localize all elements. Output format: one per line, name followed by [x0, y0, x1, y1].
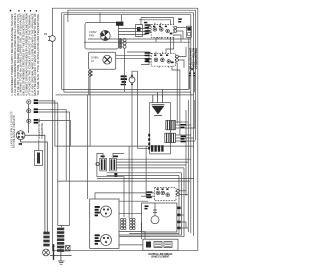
- oven light L1 box: [89, 52, 116, 69]
- connector stacks right of motor box: [121, 218, 136, 229]
- electronic control board U1: [150, 103, 171, 154]
- connector stack below box2: [88, 70, 92, 76]
- wires bottom center: [62, 193, 155, 245]
- svg-text:BAKE ELEMENT: BAKE ELEMENT: [151, 255, 170, 258]
- svg-text:P9: P9: [44, 32, 48, 36]
- cooling fan motors M2 M3 box: [90, 199, 119, 248]
- notes text block (rotated): [10, 13, 40, 96]
- surface unit switch SW2 (dashed): [151, 53, 175, 66]
- ground symbol: [50, 248, 72, 264]
- power wires from bullets: [38, 101, 71, 226]
- wire P3 to fuse: [38, 139, 40, 150]
- wire loop 4: [64, 15, 191, 233]
- indicator light box right: [187, 26, 192, 37]
- long wires below row1: [84, 39, 183, 42]
- wire loop 2: [68, 10, 195, 140]
- oven selector switch SW3 (dashed): [155, 188, 177, 201]
- right vertical bundle: [184, 38, 195, 228]
- note numbers top ticks: [10, 10, 37, 12]
- wire labels top-right: [178, 18, 182, 22]
- board terminal glyph row: [151, 145, 164, 152]
- wires to switch row1 top: [141, 18, 174, 25]
- fan of wires from plugs to right bundle: [97, 159, 194, 178]
- small box left of row1 labels: [136, 25, 143, 37]
- plug labels: [181, 124, 187, 142]
- latch box right pins: [177, 207, 180, 230]
- svg-text:FAN: FAN: [89, 33, 94, 37]
- spark module U2: [152, 89, 165, 115]
- interlock circle on left frame wire: [48, 36, 55, 42]
- convection fan motor M1 box: [85, 22, 123, 49]
- bottom right bundle bend: [119, 173, 188, 237]
- vertical bundle mid page going down: [88, 95, 147, 239]
- P3 label block: [37, 118, 44, 138]
- plug labels: [101, 156, 119, 177]
- connector bullets column: [27, 100, 31, 133]
- bottom left terminal assembly: [43, 232, 50, 256]
- wire loop 3: [62, 13, 194, 236]
- crossing wires + pins right: [190, 67, 195, 93]
- svg-text:CONV: CONV: [89, 30, 97, 34]
- fuse F2: [66, 246, 71, 252]
- svg-text:OVEN: OVEN: [91, 56, 98, 60]
- long horizontals mid right: [55, 89, 194, 181]
- sensor circle: [96, 163, 99, 166]
- door latch motor M4 box: [142, 203, 189, 232]
- svg-text:GY=GRAY BU=BLU: GY=GRAY BU=BLU: [195, 48, 198, 70]
- harness loop around plugs: [97, 153, 124, 217]
- verticals between switch rows: [156, 37, 174, 53]
- connector P5: [165, 133, 176, 142]
- bullet labels: [34, 99, 38, 123]
- svg-text:THE SAME SIZE, TYPE OF INSULAT: THE SAME SIZE, TYPE OF INSULATION AND TE…: [36, 13, 40, 96]
- box1 connector dots: [119, 39, 126, 49]
- svg-text:LT: LT: [91, 59, 94, 63]
- legend note (rotated): [9, 111, 16, 148]
- wires row1 to right: [174, 28, 191, 43]
- surface unit switch SW1 (dashed): [151, 25, 174, 38]
- board left edge pins: [148, 134, 150, 150]
- terminal block TB1: [53, 244, 55, 260]
- fuse F1: [35, 151, 43, 166]
- connector P4: [166, 120, 176, 129]
- power plug J1: [16, 131, 47, 232]
- svg-text:TO THE RANGE CIRCUITS.: TO THE RANGE CIRCUITS.: [12, 114, 16, 148]
- wires top middle: [89, 13, 151, 218]
- svg-text:OTHERWISE: OTHERWISE: [40, 123, 44, 139]
- right legend vertical text: [190, 47, 198, 69]
- door switch circle: [129, 75, 135, 85]
- elements box: [143, 239, 178, 250]
- connectors P1 and P2: [100, 158, 117, 171]
- wire loop outer frame: [52, 8, 197, 250]
- wires row2 right: [172, 47, 186, 135]
